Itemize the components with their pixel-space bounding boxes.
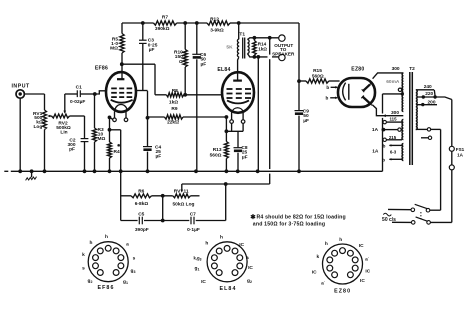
svg-text:50kΩ Log: 50kΩ Log xyxy=(173,201,195,207)
svg-text:R4 should be 82Ω for 15Ω loadi: R4 should be 82Ω for 15Ω loading xyxy=(257,214,346,220)
svg-text:k: k xyxy=(82,252,85,258)
svg-text:390pF: 390pF xyxy=(135,227,149,233)
svg-text:aʿ: aʿ xyxy=(365,256,370,263)
svg-text:C1: C1 xyxy=(76,85,82,91)
svg-text:IC: IC xyxy=(360,278,365,284)
svg-text:s: s xyxy=(133,257,136,262)
svg-text:EL84: EL84 xyxy=(219,286,236,292)
svg-text:6-8kΩ: 6-8kΩ xyxy=(135,201,149,207)
svg-text:k: k xyxy=(316,254,319,260)
svg-text:µF: µF xyxy=(156,154,162,160)
svg-text:Log: Log xyxy=(34,124,43,130)
svg-text:µF: µF xyxy=(242,154,248,160)
svg-text:and 150Ω for 3·75Ω loading: and 150Ω for 3·75Ω loading xyxy=(253,222,325,228)
svg-text:60mA: 60mA xyxy=(386,79,400,85)
svg-text:R4: R4 xyxy=(114,149,120,155)
svg-text:560Ω: 560Ω xyxy=(312,74,324,80)
svg-text:s: s xyxy=(82,267,85,272)
svg-text:Lin: Lin xyxy=(60,129,67,135)
svg-text:R9: R9 xyxy=(171,106,177,112)
svg-text:R13: R13 xyxy=(213,147,222,153)
svg-text:SPEAKER: SPEAKER xyxy=(272,51,295,56)
svg-text:390kΩ: 390kΩ xyxy=(155,26,170,32)
svg-text:g2: g2 xyxy=(88,279,93,284)
svg-text:✱: ✱ xyxy=(250,213,256,221)
svg-text:0·1µF: 0·1µF xyxy=(187,227,200,233)
svg-text:3-9kΩ: 3-9kΩ xyxy=(210,27,224,33)
svg-text:b: b xyxy=(382,157,385,162)
svg-text:IC: IC xyxy=(365,268,370,274)
svg-text:g3: g3 xyxy=(131,269,136,274)
svg-text:6-3: 6-3 xyxy=(390,150,397,155)
svg-text:EZ80: EZ80 xyxy=(351,66,364,72)
svg-text:115: 115 xyxy=(389,117,397,122)
svg-text:R6: R6 xyxy=(138,189,144,195)
svg-text:R8: R8 xyxy=(172,88,178,94)
svg-text:b: b xyxy=(325,96,328,101)
svg-text:IC: IC xyxy=(359,243,364,249)
svg-text:1kΩ: 1kΩ xyxy=(258,47,267,52)
svg-text:h: h xyxy=(105,234,108,240)
svg-text:R7: R7 xyxy=(162,14,168,20)
svg-text:R15: R15 xyxy=(313,68,322,74)
svg-text:pF: pF xyxy=(69,147,75,153)
svg-text:FS1: FS1 xyxy=(456,147,465,152)
svg-text:22kΩ: 22kΩ xyxy=(167,120,179,126)
svg-text:560Ω: 560Ω xyxy=(210,152,222,158)
svg-text:240: 240 xyxy=(424,84,432,90)
svg-text:h: h xyxy=(205,241,208,247)
svg-text:h: h xyxy=(220,235,223,241)
svg-text:EF86: EF86 xyxy=(97,285,114,291)
svg-text:a: a xyxy=(126,243,129,248)
svg-text:RV: RV xyxy=(174,189,181,195)
svg-text:h: h xyxy=(339,237,342,243)
svg-text:b: b xyxy=(326,85,329,90)
svg-text:INPUT: INPUT xyxy=(11,83,30,89)
svg-text:220: 220 xyxy=(425,91,433,97)
svg-text:g2: g2 xyxy=(247,279,252,284)
svg-text:g1: g1 xyxy=(195,267,200,272)
svg-text:IC: IC xyxy=(239,242,244,248)
svg-text:µF: µF xyxy=(201,61,207,67)
svg-text:aʾ: aʾ xyxy=(321,279,326,286)
svg-text:Ω: Ω xyxy=(179,59,183,65)
svg-text:h: h xyxy=(325,241,328,247)
svg-text:1A: 1A xyxy=(372,127,379,133)
svg-text:R12: R12 xyxy=(210,17,219,23)
svg-text:50 c/s: 50 c/s xyxy=(382,217,396,223)
svg-text:215: 215 xyxy=(389,135,397,140)
svg-text:h: h xyxy=(90,240,93,246)
svg-text:EZ80: EZ80 xyxy=(334,289,351,295)
svg-text:0·02µF: 0·02µF xyxy=(70,99,85,105)
svg-text:T1: T1 xyxy=(239,31,245,37)
svg-text:11: 11 xyxy=(184,189,189,195)
svg-text:EF86: EF86 xyxy=(95,66,108,72)
svg-text:a: a xyxy=(246,256,249,261)
svg-text:5K: 5K xyxy=(226,45,233,51)
svg-text:300: 300 xyxy=(391,110,399,116)
svg-text:1kΩ: 1kΩ xyxy=(169,99,178,105)
svg-text:1A: 1A xyxy=(372,149,379,155)
svg-text:1A: 1A xyxy=(457,153,464,158)
svg-text:EL84: EL84 xyxy=(217,67,230,73)
svg-text:300: 300 xyxy=(392,66,400,72)
svg-text:IC: IC xyxy=(201,279,206,285)
svg-text:T2: T2 xyxy=(409,66,415,72)
svg-text:C5: C5 xyxy=(138,211,144,217)
svg-text:µF: µF xyxy=(303,118,309,124)
svg-text:IC: IC xyxy=(312,270,317,276)
svg-text:µF: µF xyxy=(149,47,155,53)
svg-text:MΩ: MΩ xyxy=(98,136,106,142)
svg-text:200: 200 xyxy=(427,99,435,105)
svg-text:b: b xyxy=(383,143,386,148)
svg-text:g1: g1 xyxy=(123,280,128,285)
svg-text:C7: C7 xyxy=(190,211,196,217)
svg-text:MΩ: MΩ xyxy=(110,46,118,52)
svg-text:IC: IC xyxy=(248,265,253,271)
